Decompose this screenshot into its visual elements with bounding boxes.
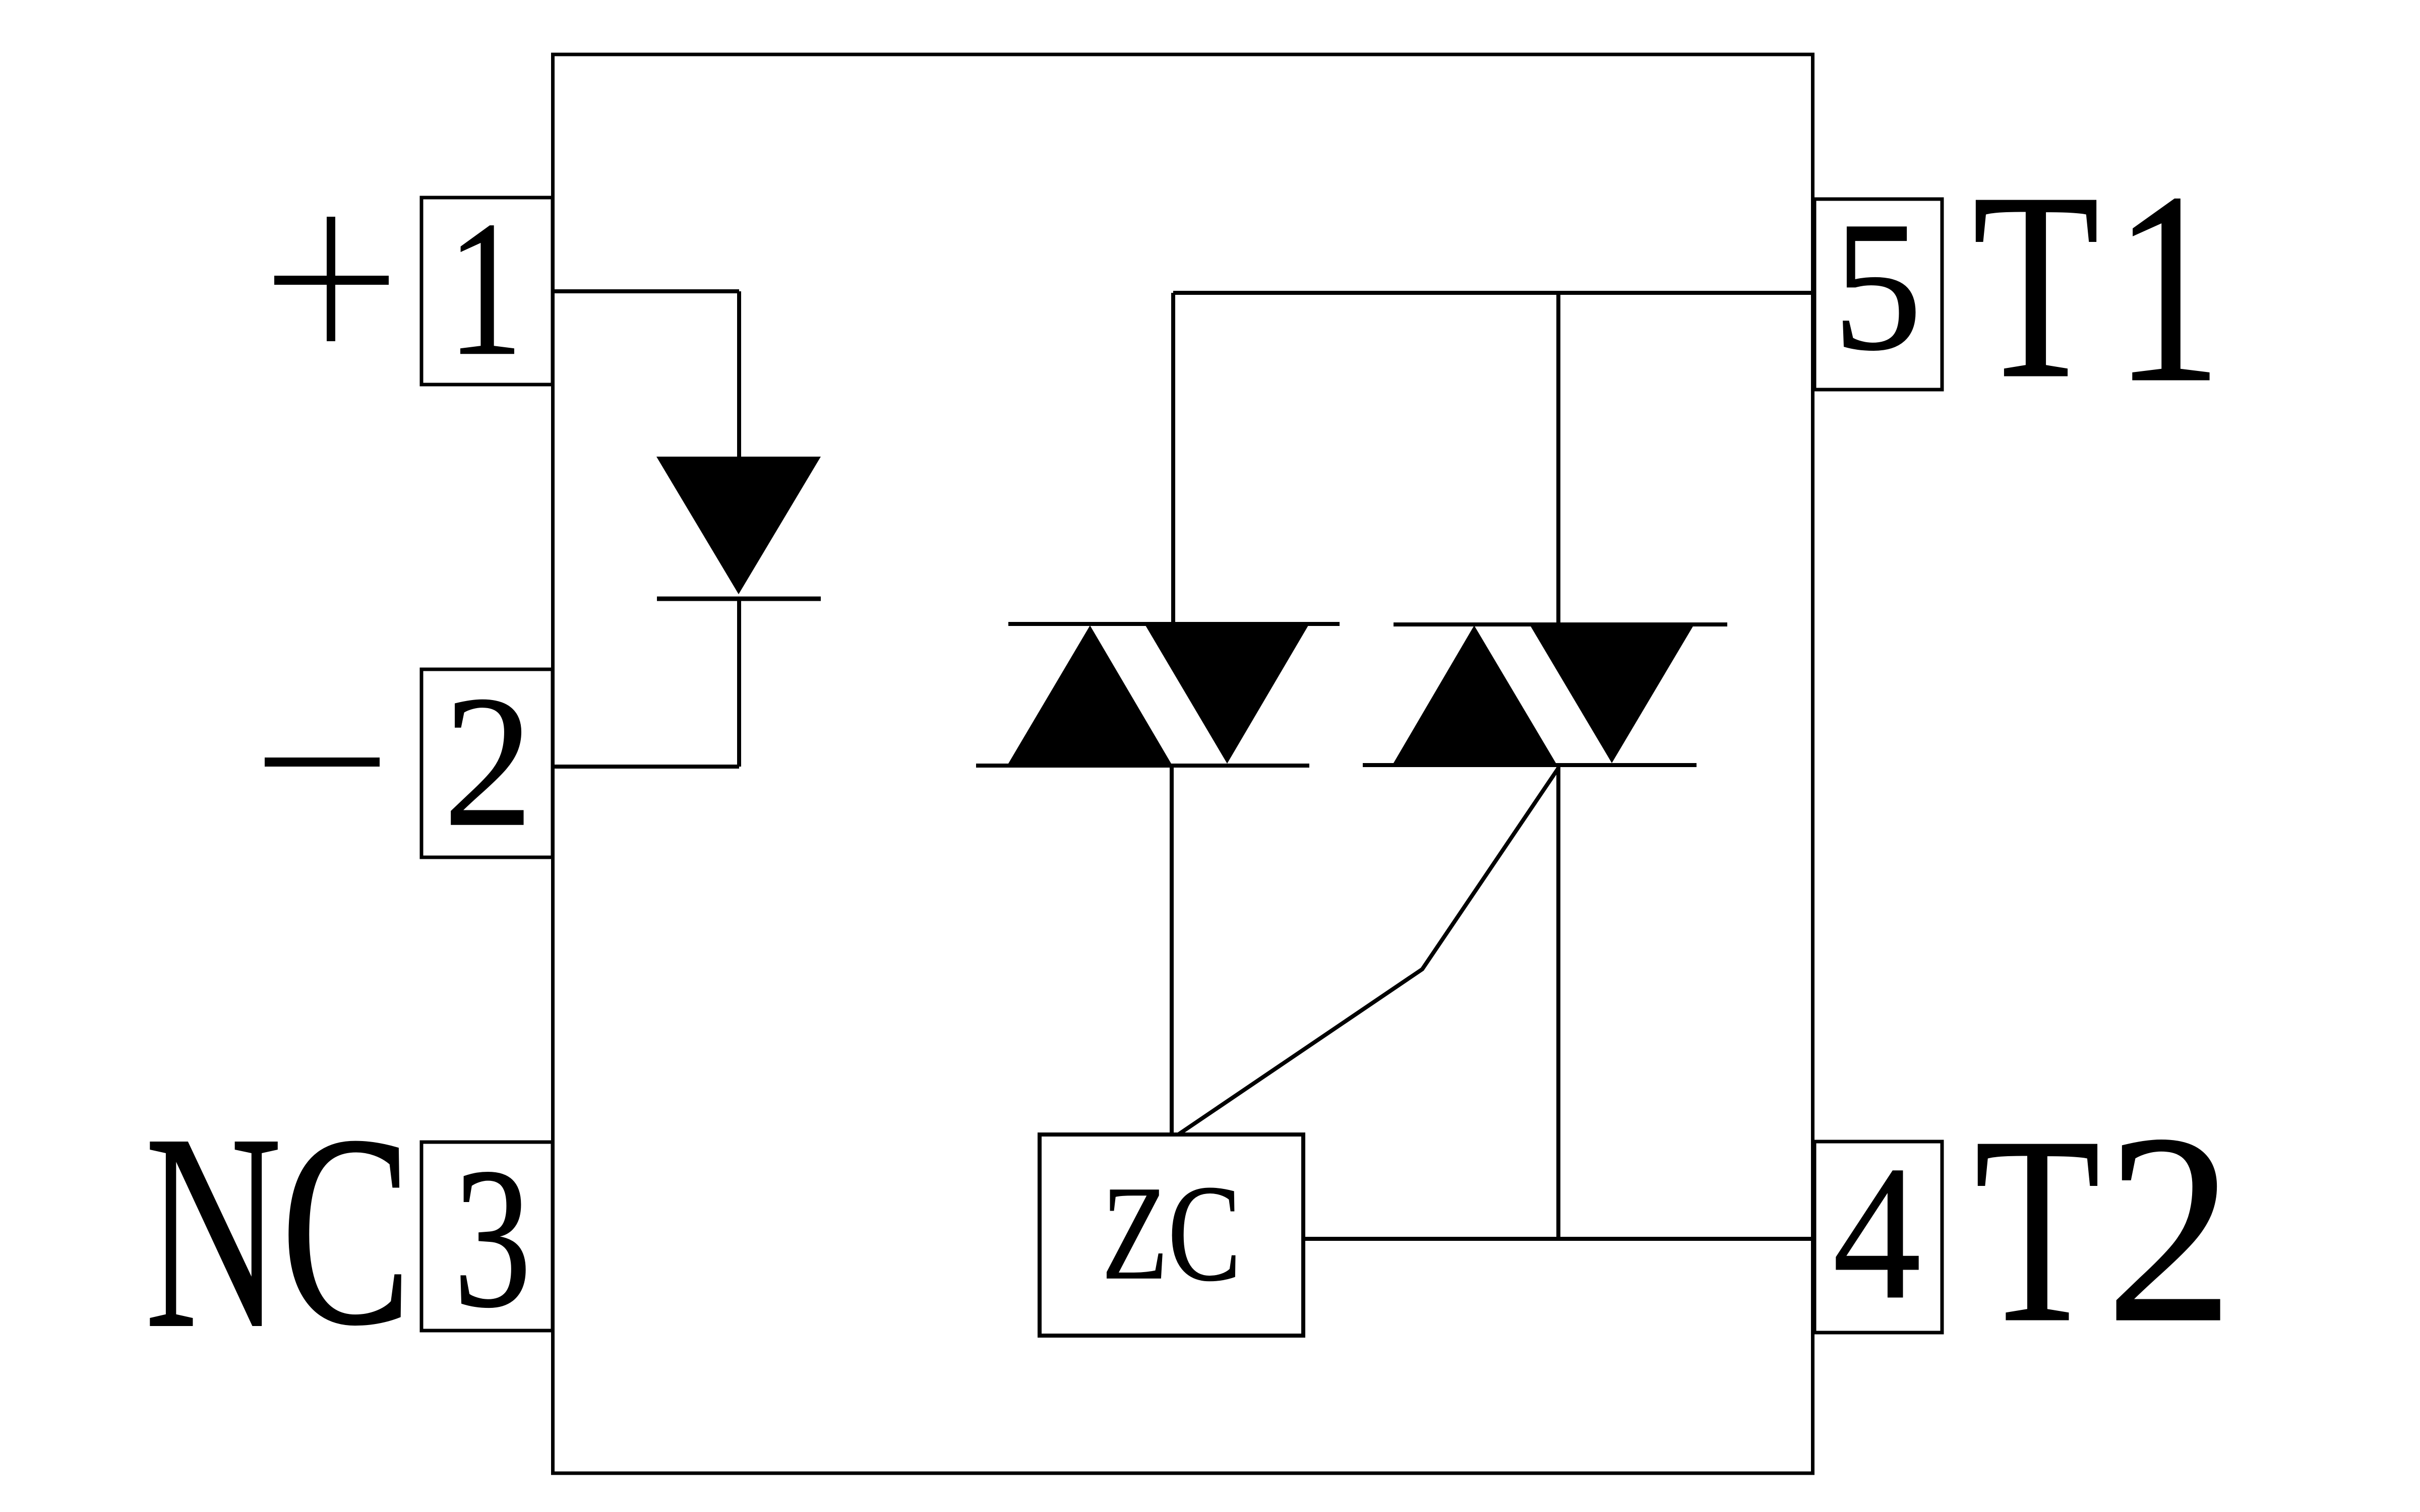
wire rail down to triac Q2 [1556, 293, 1560, 624]
pin number 3 [453, 1137, 531, 1339]
pin 4 box [1814, 1142, 1942, 1333]
wire LED to pin2 [553, 765, 739, 769]
label ZC letter C [1168, 1164, 1241, 1302]
label ZC letter Z [1102, 1165, 1168, 1300]
pin number 2 [443, 667, 533, 856]
plus symbol horizontal bar [274, 276, 389, 285]
pin 3 box [421, 1142, 553, 1331]
label T2 letter T [1974, 1096, 2100, 1364]
IC body outline U1 [553, 54, 1813, 1473]
gate wire diagonal ZC to triac Q2 [1178, 768, 1558, 1135]
label T1 letter T [1972, 152, 2099, 420]
triac Q2 down triangle [1530, 625, 1693, 763]
LED D1 cathode bar [657, 597, 821, 601]
wire rail down to triac Q1 [1171, 293, 1175, 624]
label NC letter N [145, 1091, 282, 1371]
top rail wire to pin5 [1173, 291, 1813, 295]
plus symbol vertical bar [327, 217, 335, 341]
label NC letter C [281, 1094, 412, 1367]
triac Q1 bottom bar [976, 764, 1309, 768]
wire triac Q2 down to ZC output wire [1556, 765, 1560, 1239]
pin number 5 [1833, 193, 1922, 379]
triac Q1 up triangle [1008, 625, 1171, 764]
pin number 1 [447, 192, 523, 386]
wire LED cathode vertical [737, 599, 741, 767]
wire ZC to pin4 [1303, 1237, 1813, 1241]
wire triac Q1 to ZC [1170, 766, 1174, 1135]
ZC box (zero-crossing circuit) [1040, 1135, 1303, 1336]
triac Q2 top bar [1394, 622, 1727, 626]
wire pin1 to LED anode [553, 289, 739, 293]
triac Q2 bottom bar [1363, 763, 1697, 767]
pin number 4 [1833, 1137, 1921, 1329]
pin 1 box [421, 198, 553, 385]
triac Q2 up triangle [1394, 625, 1556, 763]
pin 5 box [1814, 199, 1942, 390]
triac Q1 down triangle [1145, 625, 1308, 764]
label T2 digit 2 [2105, 1093, 2234, 1364]
wire LED anode vertical [737, 291, 741, 459]
LED D1 triangle [656, 457, 821, 594]
triac Q1 top bar [1008, 622, 1340, 626]
minus symbol [265, 758, 380, 767]
label T1 digit 1 [2113, 151, 2222, 425]
pin 2 box [421, 669, 553, 857]
